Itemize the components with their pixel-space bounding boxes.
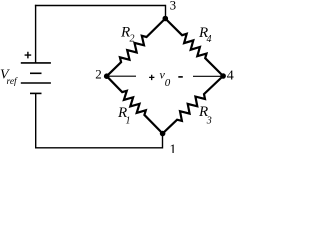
svg-text:0: 0 bbox=[165, 77, 171, 89]
wire left rail down to battery bbox=[35, 5, 37, 63]
svg-text:1: 1 bbox=[169, 142, 176, 153]
svg-text:4: 4 bbox=[227, 68, 234, 83]
minus sign of vo bbox=[178, 76, 183, 78]
wire stub up to node 1 bbox=[162, 134, 164, 149]
plus sign of vo bbox=[149, 75, 154, 80]
node 4 junction dot bbox=[220, 73, 226, 79]
svg-text:1: 1 bbox=[126, 116, 131, 127]
plus sign of battery bbox=[25, 52, 32, 59]
svg-text:2: 2 bbox=[95, 67, 102, 82]
battery long plate 3 bbox=[21, 82, 51, 84]
dash from node 2 toward vo bbox=[109, 75, 137, 77]
svg-text:3: 3 bbox=[206, 116, 212, 127]
svg-text:3: 3 bbox=[170, 0, 177, 13]
svg-text:ref: ref bbox=[7, 76, 19, 87]
svg-text:4: 4 bbox=[207, 34, 212, 45]
battery Vref plate long top bbox=[21, 62, 51, 64]
node 3 junction dot bbox=[163, 16, 169, 22]
resistor R1 zigzag between node 2 and node 1 bbox=[107, 76, 163, 133]
battery short plate 4 bbox=[30, 92, 42, 94]
node 2 junction dot bbox=[104, 73, 110, 79]
wire bottom rail bbox=[35, 147, 163, 149]
resistor R3 zigzag between node 1 and node 4 bbox=[163, 76, 224, 134]
resistor R2 zigzag between node 2 and node 3 bbox=[107, 19, 166, 77]
battery short plate 2 bbox=[30, 72, 42, 74]
dash from vo toward node 4 bbox=[193, 75, 222, 77]
svg-text:2: 2 bbox=[130, 34, 135, 45]
wire from battery bottom down bbox=[35, 93, 37, 147]
wire drop from top rail to node 3 bbox=[165, 5, 167, 19]
node 1 junction dot bbox=[160, 131, 166, 137]
resistor R4 zigzag between node 3 and node 4 bbox=[165, 19, 223, 77]
wire top rail bbox=[35, 5, 166, 7]
